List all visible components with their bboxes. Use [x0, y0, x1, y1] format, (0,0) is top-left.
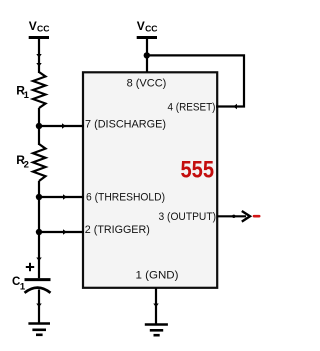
red output continuation — [253, 215, 261, 218]
wire VCC to pin 8 — [146, 39, 148, 72]
svg-text:1: 1 — [24, 90, 30, 101]
label R2 — [16, 153, 29, 171]
power symbol VCC left — [29, 19, 50, 37]
svg-text:2 (TRIGGER): 2 (TRIGGER) — [85, 224, 150, 236]
svg-text:1: 1 — [20, 281, 26, 292]
svg-text:4 (RESET): 4 (RESET) — [168, 102, 216, 114]
ground right — [145, 325, 168, 336]
junction node vcc — [144, 52, 150, 58]
current arrow — [36, 54, 41, 58]
wire R1 to node — [38, 108, 40, 127]
current arrow — [63, 194, 67, 199]
svg-text:555: 555 — [181, 157, 215, 184]
svg-text:6 (THRESHOLD): 6 (THRESHOLD) — [86, 191, 165, 203]
current arrow — [36, 63, 41, 67]
wire node to pin 7 — [39, 125, 84, 127]
resistor R2 — [33, 144, 46, 181]
capacitor C1 top plate — [25, 278, 51, 281]
label R1 — [16, 83, 29, 101]
current arrow — [63, 229, 67, 234]
svg-text:2: 2 — [24, 160, 29, 171]
IC U1 555 body — [83, 72, 217, 287]
wire node to C1 — [38, 232, 40, 278]
current arrow — [233, 104, 237, 109]
svg-text:7 (DISCHARGE): 7 (DISCHARGE) — [85, 118, 166, 130]
wire C1 to ground — [38, 290, 40, 324]
svg-text:CC: CC — [145, 24, 157, 34]
wire vcc node to pin 4 — [147, 55, 244, 106]
svg-text:CC: CC — [37, 24, 49, 34]
wire node to R2 — [38, 126, 40, 145]
svg-text:V: V — [29, 19, 37, 33]
capacitor C1 plus sign — [26, 263, 34, 271]
power symbol VCC center — [137, 19, 158, 37]
svg-text:1 (GND): 1 (GND) — [136, 269, 179, 281]
current arrow — [232, 215, 235, 218]
wire pin 1 to ground — [155, 288, 157, 325]
wire VCC to R1 — [38, 39, 40, 73]
output arrowhead — [242, 211, 250, 222]
svg-text:3 (OUTPUT): 3 (OUTPUT) — [159, 211, 217, 223]
junction node pin2 — [36, 229, 42, 235]
current arrow — [36, 258, 41, 262]
current arrow — [62, 123, 66, 128]
junction node pin6 — [36, 194, 42, 200]
label C1 — [12, 276, 26, 293]
svg-text:8 (VCC): 8 (VCC) — [127, 78, 167, 90]
wire pin 3 output — [217, 215, 246, 217]
wire node to pin 6 — [39, 196, 84, 198]
capacitor C1 curved plate — [25, 288, 51, 293]
wire node to pin 2 — [39, 231, 84, 233]
current arrow — [36, 304, 41, 308]
resistor R1 — [33, 72, 46, 108]
current arrow — [153, 304, 158, 308]
ground left — [28, 324, 50, 335]
wire R2 to node — [38, 181, 40, 198]
wire pin6 node to pin2 node — [38, 197, 40, 233]
junction node pin7 — [36, 123, 42, 129]
svg-text:V: V — [137, 19, 145, 33]
